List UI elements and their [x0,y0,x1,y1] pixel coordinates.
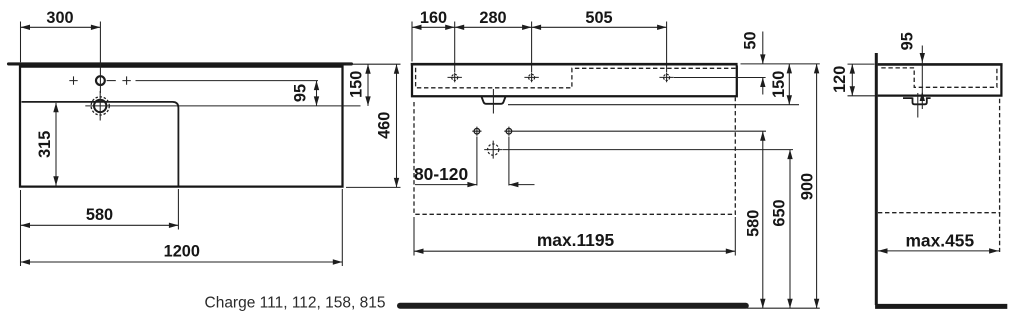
svg-text:580: 580 [86,206,113,224]
svg-text:900: 900 [798,173,816,200]
dimension 580 (plan) [21,189,179,266]
dimension max.1195 [414,217,735,256]
dimension 95 (side) [899,32,925,109]
svg-text:460: 460 [375,112,393,139]
floor bar front [400,303,746,309]
furniture zone dashed line side [878,212,1000,214]
dimension 120 (side) [831,64,875,96]
dimension max.455 [878,230,1000,253]
side top edge [878,63,1003,66]
basin outer rectangle top view [20,66,343,187]
drain centerline front [492,89,494,114]
svg-text:505: 505 [585,9,612,27]
faucet hole [96,76,105,85]
front outline [412,66,737,97]
svg-text:max.455: max.455 [905,230,974,250]
dimension 280 [455,9,532,30]
svg-text:80-120: 80-120 [414,164,468,184]
front top dimension extension lines [412,22,667,73]
dashed extension line side [999,99,1001,252]
svg-text:150: 150 [347,71,365,98]
svg-text:280: 280 [479,9,506,27]
tap hole 2 front [524,73,538,83]
svg-text:300: 300 [46,9,73,27]
svg-text:50: 50 [741,31,759,49]
svg-text:580: 580 [745,210,763,237]
drain trap front [481,96,505,103]
drain hole extension right [503,149,794,151]
drain solid circle [94,100,106,112]
dimension 900 [798,64,819,308]
floor extension line [747,307,820,309]
dimension 150 (front) [770,64,792,105]
furniture zone dashed rectangle [414,98,735,215]
dimension 460 (plan) [375,64,399,187]
mounting hole extension right [514,130,767,132]
dimension 300 [21,9,101,62]
mounting hole left [472,127,481,136]
dimension 505 [532,9,667,30]
svg-text:650: 650 [771,199,789,226]
dimension 80-120 [414,164,535,187]
dimension 160 [412,9,455,30]
trap bottom extension line [508,104,799,106]
svg-text:Charge 111, 112, 158, 815: Charge 111, 112, 158, 815 [205,294,386,311]
caption text [205,294,386,311]
dimension 1200 (plan) [21,189,343,266]
faucet centerline vertical [99,22,101,94]
side cavity hidden line [881,67,997,88]
drain horizontal centerline to 150 dim [85,105,360,107]
top edge extension right (front) [741,63,820,65]
svg-text:160: 160 [420,9,447,27]
wall line top view [9,62,352,65]
svg-text:120: 120 [831,66,849,93]
floor line side view [875,304,1007,309]
wall line side view [875,53,878,305]
faucet cross mark right [122,76,130,84]
faucet horizontal reference line [136,80,319,82]
mounting hole right [504,127,513,136]
drain vertical centerline [99,91,101,121]
basin inner rim [22,102,179,186]
tap hole line extension right [674,77,766,79]
tap hole 3 front [659,73,673,83]
svg-text:1200: 1200 [164,243,200,261]
dimension 95 (plan) [292,81,320,106]
bottom edge extension line right (plan) [346,186,401,188]
dimension 650 [771,150,793,309]
tap hole 1 front [448,73,462,83]
dimension 580 (front) [745,131,766,308]
faucet dash segment [107,80,116,82]
dimension 150 (plan) [347,64,370,106]
front top edge [411,63,738,66]
dimension 50 [741,31,765,94]
svg-text:95: 95 [899,32,917,50]
mounting hole extension lines down [477,137,509,186]
faucet cross mark left [69,76,77,84]
side trap centerline [917,93,919,118]
top edge extension line right (plan) [346,63,401,65]
front cavity hidden line [416,68,736,88]
svg-text:max.1195: max.1195 [537,230,615,250]
side outline [878,65,1002,95]
svg-text:150: 150 [770,71,788,98]
svg-text:315: 315 [36,131,54,158]
drain dashed circle [91,97,109,115]
side trap [903,97,931,104]
svg-text:95: 95 [292,84,310,102]
dimension 315 [36,103,59,186]
drain hole hidden front [484,141,502,159]
